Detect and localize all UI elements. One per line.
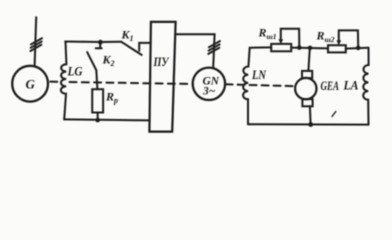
wire: left loop bottom — [64, 119, 149, 120]
switch K2 blade — [87, 52, 96, 70]
wire Rsh1 to Rsh2 — [291, 47, 328, 50]
node dot GEA top — [308, 46, 313, 51]
wire: right loop bottom — [248, 123, 369, 125]
shaft dash G-LG — [50, 81, 57, 83]
three-phase slashes at G — [31, 38, 42, 44]
node dot Rsh2 tap — [356, 46, 361, 51]
switch K2 stub and tick — [99, 42, 101, 48]
GEA top brush — [302, 71, 312, 78]
svg-text:LN: LN — [251, 68, 267, 82]
motor GN — [193, 68, 225, 100]
svg-text:G: G — [26, 77, 36, 92]
inductor LA and right loop right side — [363, 48, 368, 125]
dashed line GN to GEA — [226, 84, 296, 86]
switch K1 fixed contact — [139, 43, 150, 51]
node dot Rsh1 tap — [297, 45, 302, 50]
GEA bottom brush — [302, 99, 312, 106]
rheostat Rsh2 tap loop — [339, 30, 358, 48]
inductor LN and right loop left side — [243, 48, 250, 125]
node dot top left loop — [98, 40, 103, 45]
rheostat Rsh2 — [328, 45, 346, 52]
svg-text:ПУ: ПУ — [153, 55, 170, 69]
wire: right loop top — [250, 46, 272, 48]
stray mark — [332, 112, 336, 117]
machine GEA — [295, 78, 316, 99]
svg-text:LG: LG — [67, 64, 83, 79]
wire: left loop top — [65, 41, 121, 44]
wire K2 to Rp — [96, 70, 97, 89]
wire Rp to bottom — [97, 113, 99, 120]
wire GEA bottom — [309, 106, 312, 124]
wire Rsh2 to LA — [346, 47, 369, 50]
dashed line LG to GN — [70, 82, 193, 84]
inductor LG — [61, 42, 67, 120]
node dot bottom left loop — [95, 118, 100, 123]
svg-text:GEA: GEA — [321, 79, 340, 93]
block PU — [149, 22, 175, 132]
three-phase slashes at GN — [209, 41, 220, 47]
wire GEA top — [308, 48, 309, 71]
svg-text:LA: LA — [343, 79, 359, 93]
resistor Rp — [92, 89, 103, 112]
rheostat Rsh1 — [271, 44, 291, 51]
generator G — [12, 66, 48, 102]
wire PU to GN supply — [176, 34, 215, 67]
switch K1 blade — [121, 42, 141, 55]
supply line to G — [35, 17, 37, 66]
node dot GEA bottom — [308, 122, 313, 127]
rheostat Rsh1 tap loop — [281, 29, 300, 48]
svg-text:3~: 3~ — [202, 86, 216, 98]
